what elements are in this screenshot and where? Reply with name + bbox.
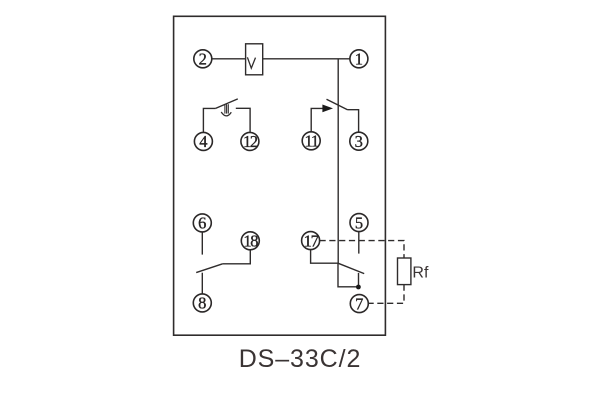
dashed link Rf to 7 xyxy=(369,285,404,304)
svg-text:17: 17 xyxy=(304,231,319,250)
wire terminal6 stub xyxy=(201,232,203,255)
resistor Rf xyxy=(398,258,411,285)
delay tick marks xyxy=(224,105,226,114)
delay arc xyxy=(221,112,231,116)
wire terminal8 riser xyxy=(201,273,203,294)
terminal 2 xyxy=(194,50,212,68)
wire terminal18 riser xyxy=(223,250,251,264)
svg-text:1: 1 xyxy=(355,50,363,69)
wire terminal12 riser xyxy=(236,108,250,132)
terminal 7 xyxy=(350,295,368,313)
wire terminal5 stub xyxy=(358,232,360,254)
terminal 18 xyxy=(241,232,259,250)
junction dot near 7 xyxy=(356,285,361,290)
contact blade 18-8 xyxy=(196,264,222,273)
svg-text:5: 5 xyxy=(355,213,363,232)
wire terminal2-to-coil xyxy=(212,58,246,60)
terminal 8 xyxy=(193,294,211,312)
terminal 6 xyxy=(193,214,211,232)
terminal 4 xyxy=(194,132,212,150)
svg-text:3: 3 xyxy=(355,132,363,151)
terminal labels xyxy=(198,50,363,314)
wire main vertical bus from node under terminal 1 xyxy=(337,59,339,263)
svg-text:8: 8 xyxy=(198,294,206,313)
svg-text:7: 7 xyxy=(355,294,363,313)
svg-text:11: 11 xyxy=(305,132,319,151)
contact blade 17-7 xyxy=(338,263,364,273)
svg-text:12: 12 xyxy=(243,132,258,151)
contact blade 4-12 (delayed contact) xyxy=(216,99,238,109)
wire terminal3 riser xyxy=(348,110,359,133)
wire blade tip to junction xyxy=(358,273,360,287)
terminal 12 xyxy=(241,132,259,150)
svg-text:2: 2 xyxy=(199,50,207,69)
terminal 1 xyxy=(350,50,368,68)
terminal 3 xyxy=(350,132,368,150)
svg-text:Rf: Rf xyxy=(412,265,429,282)
svg-text:DS–33C/2: DS–33C/2 xyxy=(239,345,362,373)
wire terminal4 riser xyxy=(203,108,215,132)
arrow wire from terminal 11 xyxy=(311,108,322,131)
svg-text:6: 6 xyxy=(198,214,206,233)
arrowhead on wire from 11 xyxy=(322,105,333,113)
terminal circles xyxy=(193,50,368,313)
terminal 5 xyxy=(350,214,368,232)
contact blade 11-3 (changeover) xyxy=(327,99,348,110)
svg-text:4: 4 xyxy=(199,132,207,151)
svg-text:18: 18 xyxy=(243,232,258,251)
dashed link 17 to Rf xyxy=(320,241,405,258)
coil U (rectangle with V mark) xyxy=(246,44,263,75)
wire terminal17 riser xyxy=(311,250,338,264)
wire coil-to-terminal1 xyxy=(263,58,350,60)
wire bus elbow to junction xyxy=(338,263,358,287)
terminal 11 xyxy=(302,132,320,150)
coil V mark xyxy=(247,57,255,68)
relay case outline xyxy=(174,16,386,335)
terminal 17 xyxy=(302,232,320,250)
